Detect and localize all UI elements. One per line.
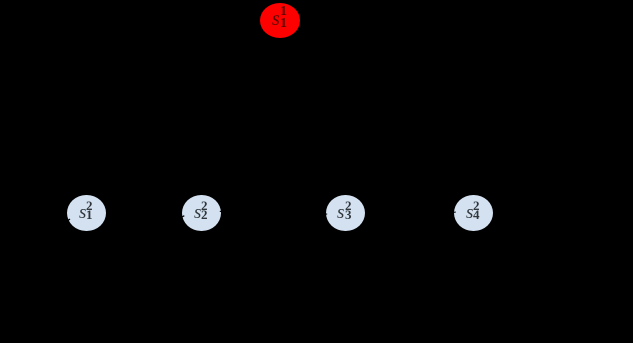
wire child 3 down <box>315 230 339 330</box>
wire nick on node s^2_4 left rim <box>454 211 456 213</box>
wire nick on node s^2_3 left rim <box>325 213 327 216</box>
wire root to child 2 <box>208 37 273 196</box>
node s^2_1 <box>67 195 106 232</box>
wire child 2 down <box>170 230 196 330</box>
node s^2_3 <box>326 195 365 232</box>
wire nick on node s^2_2 right rim <box>220 210 222 212</box>
node s^2_4 <box>454 195 493 232</box>
wire root to child 3 <box>286 37 340 196</box>
wire nick on node s^2_2 left rim <box>182 216 184 217</box>
wire child 1 down <box>40 230 79 330</box>
node s^1_1 (root, red) <box>260 3 300 38</box>
wire root to child 4 <box>295 34 460 199</box>
wire nick on node s^2_1 lower-left rim <box>67 219 70 221</box>
node s^2_2 <box>182 195 221 232</box>
wire child 4 down <box>445 230 468 330</box>
